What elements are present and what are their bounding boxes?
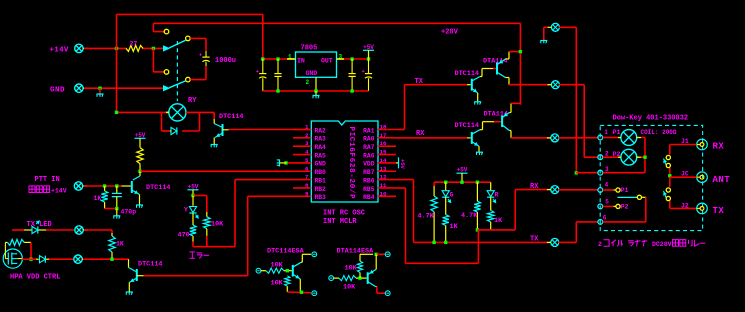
- wire line1 top: [117, 13, 263, 15]
- ground pin5 rotated: [277, 159, 286, 166]
- capacitor C out ceramic: [349, 59, 356, 91]
- pin 1 relay: [598, 135, 603, 140]
- ground relay driver emitter: [211, 145, 218, 148]
- resistor R 10K lower dtc-esa: [285, 276, 290, 292]
- label Y: [184, 207, 188, 214]
- wire +14V row: [84, 47, 163, 49]
- label DTA114 tx: [483, 58, 507, 66]
- ground bottom transistor: [126, 292, 133, 295]
- svg-text:IN: IN: [297, 58, 305, 65]
- transistor Q PTT: [132, 171, 140, 204]
- resistor R 10K base dta-esa: [339, 276, 367, 281]
- diode D flyback: [170, 127, 177, 134]
- connector RX: [547, 186, 559, 194]
- wire riser to RB3: [248, 196, 293, 275]
- wire dtc esa emitter row: [287, 291, 311, 294]
- chip part number: [347, 127, 355, 200]
- svg-text:6: 6: [603, 215, 607, 222]
- svg-text:RX: RX: [530, 183, 539, 191]
- svg-text:1: 1: [604, 129, 608, 136]
- wire error bottom: [193, 246, 235, 248]
- label 27: [130, 41, 138, 48]
- label P1 coil: [613, 129, 621, 136]
- wire RB6 riser: [396, 180, 414, 243]
- capacitor C in electro: [256, 59, 267, 91]
- svg-text:RA1: RA1: [363, 127, 375, 134]
- label J2: [681, 203, 689, 210]
- wire to J2: [670, 201, 697, 208]
- svg-text:INT MCLR: INT MCLR: [323, 218, 357, 226]
- svg-text:RB2: RB2: [315, 186, 327, 193]
- resistor R 4.7K right: [474, 182, 480, 230]
- label 1K R: [494, 217, 503, 225]
- label +28V: [441, 29, 459, 37]
- label DTC114 tx: [455, 70, 479, 78]
- svg-text:10K: 10K: [271, 279, 284, 287]
- wire RX riser: [515, 190, 551, 230]
- chip right pin names: [363, 127, 375, 201]
- connector TX: [547, 238, 559, 246]
- wire row2 corner: [111, 230, 113, 233]
- node bus2: [314, 89, 317, 92]
- aux blade: [618, 195, 642, 199]
- svg-text:INT RC OSC: INT RC OSC: [323, 210, 365, 218]
- svg-text:4.7K: 4.7K: [461, 212, 478, 220]
- connector out bottom DTC ESA: [312, 291, 317, 296]
- transistor Q DTA114 tx: [497, 52, 509, 85]
- label 7805: [301, 45, 318, 53]
- node OUT1: [350, 57, 353, 60]
- svg-text:DTC114: DTC114: [146, 184, 170, 192]
- wire 7805 gnd stub: [315, 77, 317, 91]
- transistor Q DTC114 tx: [467, 77, 480, 102]
- node +14V/line1 junction: [115, 47, 118, 50]
- node dta esa top: [375, 253, 378, 256]
- svg-text:1K: 1K: [116, 241, 124, 248]
- ground GND row: [97, 94, 104, 97]
- rf contact b2: [666, 196, 670, 200]
- wire row3 right: [83, 258, 129, 260]
- label DTC114 relay driver: [219, 113, 243, 121]
- label RY: [188, 97, 197, 105]
- svg-text:RX: RX: [713, 142, 725, 152]
- wire DTC tx collector: [480, 69, 497, 77]
- svg-text:P2: P2: [621, 203, 629, 210]
- wire line1 drop to 7805 IN: [262, 14, 264, 59]
- svg-text:R: R: [495, 191, 499, 198]
- wire HPA gate drop: [30, 242, 32, 259]
- svg-text:8: 8: [305, 182, 309, 189]
- svg-text:15: 15: [380, 149, 387, 156]
- ground top right: [540, 41, 547, 44]
- node error top: [191, 194, 194, 197]
- label soushinji+14V: [29, 186, 67, 195]
- resistor R HPA gate: [5, 239, 31, 252]
- ground 7805: [313, 96, 320, 99]
- resistor R 10K base dtc-esa: [266, 268, 292, 273]
- ground PTT: [113, 216, 120, 219]
- contact P1 aux: [603, 188, 620, 192]
- svg-text:RB3: RB3: [315, 194, 327, 201]
- led D error Y: [189, 196, 198, 226]
- connector out top DTA ESA: [385, 252, 390, 257]
- wire GND row: [84, 87, 163, 89]
- switch contact pole2 a: [164, 70, 169, 75]
- svg-text:RB4: RB4: [363, 194, 375, 201]
- chip right pin numbers: [380, 124, 387, 198]
- svg-text:9: 9: [305, 190, 309, 197]
- svg-text:4: 4: [605, 182, 609, 189]
- svg-text:10: 10: [380, 190, 387, 197]
- svg-text:1K: 1K: [450, 223, 459, 231]
- label RX mid: [416, 130, 425, 138]
- wire PTT row: [84, 185, 131, 187]
- svg-text:RB1: RB1: [315, 177, 327, 184]
- node dtc esa bottom: [300, 291, 303, 294]
- wire RX from RA0: [396, 137, 467, 139]
- label 1K PTT: [94, 195, 102, 202]
- svg-text:+28V: +28V: [441, 29, 459, 37]
- node row3 1K: [110, 258, 113, 261]
- connector in DTA ESA: [329, 276, 339, 281]
- transistor Q bottom: [129, 259, 144, 291]
- svg-text:+5V: +5V: [399, 159, 406, 170]
- label TX LED: [27, 221, 52, 229]
- label 1K row2: [116, 241, 124, 248]
- wire gnd conn right: [559, 27, 577, 172]
- svg-text:DTC114: DTC114: [455, 70, 479, 78]
- wire coil left: [117, 111, 169, 113]
- pin 4 relay: [598, 188, 603, 193]
- svg-text:18: 18: [380, 124, 387, 131]
- capacitor C 470p: [112, 186, 122, 209]
- transistor Q DTA114 rx: [502, 103, 511, 138]
- pin number labels relay: [603, 129, 609, 222]
- chip left pin numbers: [305, 124, 309, 198]
- resistor R 1K PTT: [101, 186, 107, 209]
- node IN1: [261, 57, 264, 60]
- power +5V rail: [457, 167, 468, 183]
- svg-text:TX: TX: [713, 206, 725, 216]
- label 10K d: [345, 265, 358, 273]
- capacitor C in ceramic: [274, 59, 281, 91]
- label DTA114 rx: [484, 110, 508, 118]
- node lamps: [643, 156, 646, 159]
- wire error branch: [193, 196, 207, 213]
- label 10K c: [343, 284, 356, 292]
- label G: [450, 191, 454, 198]
- svg-text:ANT: ANT: [713, 175, 731, 185]
- node PTT gnd: [115, 207, 118, 210]
- transistor Q DTC114 rx: [467, 130, 480, 152]
- label ANT big: [713, 175, 731, 185]
- svg-text:6: 6: [305, 165, 309, 172]
- connector +14V port: [75, 44, 88, 52]
- svg-text:GND: GND: [50, 86, 65, 94]
- svg-text:OUT: OUT: [321, 58, 333, 65]
- wire PTT bottom: [105, 208, 117, 210]
- node bus3: [350, 89, 353, 92]
- diode D flyback loop: [162, 112, 200, 131]
- label DTA114ESA: [337, 248, 375, 256]
- wire DTA rx collector out: [511, 137, 551, 139]
- label PTT IN: [35, 176, 60, 184]
- wire lamps common: [637, 138, 645, 173]
- connector coil2 feed: [547, 81, 559, 89]
- label P1 aux: [621, 187, 629, 194]
- led D TX LED: [32, 221, 74, 234]
- node HPA: [29, 258, 32, 261]
- wire 7805 bottom bus: [263, 90, 369, 92]
- pin 6 relay: [598, 220, 603, 225]
- wire DTC rx collector: [480, 122, 502, 130]
- svg-text:4: 4: [305, 149, 309, 156]
- label P2 aux: [621, 203, 629, 210]
- svg-text:RA6: RA6: [363, 152, 375, 159]
- capacitor C out electro: [362, 59, 373, 91]
- chip left pin stubs: [293, 130, 311, 197]
- wire dta esa out top: [376, 253, 385, 255]
- svg-text:5: 5: [605, 198, 609, 205]
- node dtc esa base: [286, 269, 289, 272]
- node pin5: [284, 161, 287, 164]
- wire TX to pin6: [558, 222, 598, 243]
- label GND: [50, 86, 65, 94]
- rf contact a2: [666, 163, 670, 167]
- svg-text:TX: TX: [415, 78, 424, 86]
- svg-text:RA5: RA5: [315, 152, 327, 159]
- svg-text:J2: J2: [681, 203, 689, 210]
- transistor Q relay driver: [214, 119, 228, 144]
- wire bottom base long: [144, 275, 248, 277]
- svg-text:27: 27: [130, 41, 138, 48]
- wire pole2b to cap bottom: [190, 66, 206, 80]
- svg-text:RY: RY: [188, 97, 197, 105]
- svg-text:RA3: RA3: [315, 136, 327, 143]
- svg-text:2: 2: [306, 79, 310, 86]
- wire JC down: [669, 177, 671, 187]
- node coil left: [115, 111, 118, 114]
- svg-text:GND: GND: [306, 70, 318, 77]
- switch contact pole2 b: [186, 77, 191, 82]
- svg-text:G: G: [450, 191, 454, 198]
- resistor R 10K error: [204, 212, 210, 247]
- pin 1 7805: [288, 54, 292, 61]
- svg-text:Dow-Key 401-330832: Dow-Key 401-330832: [613, 115, 689, 123]
- svg-text:2: 2: [598, 241, 602, 248]
- label RX right: [530, 183, 539, 191]
- node bus1: [276, 89, 279, 92]
- svg-text:VDD: VDD: [363, 161, 375, 168]
- label relay description: [598, 240, 705, 249]
- label DTC114 PTT: [146, 184, 170, 192]
- wire JC left: [670, 176, 697, 178]
- label TX big: [713, 206, 725, 216]
- svg-text:DTC114ESA: DTC114ESA: [267, 248, 305, 256]
- node rail2: [460, 181, 463, 184]
- wire RB5 loop: [396, 188, 478, 263]
- wire pole1b to cap: [190, 38, 206, 51]
- node 27-switch junction: [152, 47, 155, 50]
- wire trunk 28V: [519, 23, 521, 104]
- svg-text:5: 5: [305, 157, 309, 164]
- svg-text:1K: 1K: [494, 217, 503, 225]
- wire vertical x116 line1 to relay: [116, 14, 118, 112]
- connector gnd top: [547, 23, 559, 31]
- svg-text:DC28V: DC28V: [652, 241, 672, 248]
- pin 5 relay: [598, 204, 603, 209]
- resistor R pullup PTT: [137, 148, 143, 172]
- wire to relay pin3: [576, 172, 598, 174]
- wire gnd stub2: [315, 91, 317, 96]
- wire aux common to pin6: [603, 197, 646, 222]
- wire error riser to RB1: [235, 180, 293, 247]
- pin 2 7805: [306, 79, 310, 86]
- node PTT c1: [115, 184, 118, 187]
- svg-text:+14V: +14V: [51, 188, 67, 195]
- label error: [190, 252, 210, 258]
- resistor R 10K upper dta-esa: [357, 254, 373, 278]
- power +5V error: [188, 183, 199, 195]
- label 1000u: [215, 57, 236, 65]
- svg-text:13: 13: [380, 165, 387, 172]
- svg-text:RA0: RA0: [363, 136, 375, 143]
- connector HPA port: [74, 255, 87, 263]
- node bus 4.7K: [432, 241, 435, 244]
- svg-text:RA7: RA7: [363, 144, 375, 151]
- svg-text:TX: TX: [530, 236, 539, 244]
- node OUT2: [367, 57, 370, 60]
- node PTT r1: [103, 184, 106, 187]
- label J1: [681, 138, 689, 145]
- power +5V pin14: [396, 157, 406, 169]
- label 10K error: [211, 221, 224, 229]
- lamp coil P2: [603, 149, 640, 165]
- label 470: [178, 232, 190, 240]
- svg-text:10K: 10K: [345, 265, 358, 273]
- chip left pin names: [315, 127, 327, 201]
- svg-text:GND: GND: [315, 161, 327, 168]
- wire line2 +28V feed: [153, 22, 520, 24]
- label 1K G: [450, 223, 459, 231]
- pin 2 relay: [598, 155, 603, 160]
- resistor R 27 zigzag: [126, 45, 143, 51]
- wire TX from RA1: [396, 85, 467, 130]
- svg-text:1000u: 1000u: [215, 57, 236, 65]
- svg-text:10K: 10K: [343, 284, 356, 292]
- wire row2 right: [84, 229, 112, 231]
- wire rail: [434, 181, 491, 183]
- label 470p: [121, 209, 137, 216]
- connector J2: [697, 203, 708, 214]
- rf contact a1: [666, 155, 670, 159]
- svg-text:470: 470: [178, 232, 190, 240]
- wire GND tap drop: [99, 88, 101, 94]
- wire coil2 right: [559, 85, 598, 158]
- svg-text:1K: 1K: [94, 195, 102, 202]
- node dta esa base: [358, 276, 361, 279]
- label 4.7K left: [418, 213, 435, 221]
- label +14V: [50, 47, 69, 55]
- chip U1 PIC16F628 body: [311, 121, 378, 202]
- pin 3 7805: [339, 54, 343, 61]
- svg-text:DTA114: DTA114: [483, 58, 507, 66]
- connector coil1 feed: [547, 134, 559, 142]
- svg-text:10K: 10K: [271, 262, 284, 270]
- switch pole2 arrow: [163, 81, 186, 92]
- svg-text:11: 11: [380, 182, 387, 189]
- svg-text:RB5: RB5: [363, 186, 375, 193]
- node rail1: [444, 181, 447, 184]
- diode D HPA: [36, 256, 73, 263]
- svg-text:7: 7: [305, 174, 309, 181]
- transistor Q DTA114ESA: [368, 254, 377, 286]
- power +5V PTT pullup: [135, 132, 146, 148]
- wire to JC: [669, 168, 671, 177]
- connector PTT IN port: [74, 182, 87, 190]
- wire driver base to PIC RA2: [229, 129, 312, 131]
- wire DTA rx emitter to 28V: [511, 103, 520, 104]
- rf contact b1: [666, 188, 670, 192]
- wire HPA row: [17, 258, 36, 261]
- node 28V junction: [519, 50, 522, 53]
- label JC: [681, 171, 689, 178]
- wire dta esa collector out: [377, 287, 385, 294]
- resistor R 1K row2: [109, 233, 115, 259]
- wire gnd conn left: [544, 27, 548, 40]
- node IN2: [276, 57, 279, 60]
- label INT MCLR: [323, 218, 357, 226]
- label P2 coil: [613, 151, 621, 158]
- svg-text:Y: Y: [184, 207, 188, 214]
- node GND ground tap: [98, 87, 101, 90]
- resistor R 470: [190, 225, 196, 247]
- wire common to pin3: [603, 172, 645, 174]
- wire 7805 IN: [263, 58, 296, 60]
- wire pole2 feed from +14V: [153, 48, 164, 72]
- connector J1: [697, 139, 708, 150]
- svg-text:3: 3: [305, 140, 309, 147]
- svg-text:DTC114: DTC114: [455, 122, 479, 130]
- label RX big: [713, 142, 725, 152]
- svg-text:COIL: 200Ω: COIL: 200Ω: [641, 129, 677, 136]
- capacitor C 1000u: [199, 51, 210, 66]
- wire PTT out to RB0: [140, 170, 293, 172]
- svg-text:1: 1: [305, 124, 309, 131]
- wire pin5 gnd: [286, 162, 293, 164]
- svg-text:4.7K: 4.7K: [418, 213, 435, 221]
- contact P2 aux: [603, 204, 620, 208]
- svg-text:17: 17: [380, 132, 387, 139]
- rf blade2: [663, 191, 667, 198]
- wire coil right: [186, 112, 214, 119]
- svg-text:P1: P1: [621, 187, 629, 194]
- label R: [495, 191, 499, 198]
- relay coil RY: [166, 104, 188, 121]
- label INT RC OSC: [323, 210, 365, 218]
- led D G: [442, 182, 451, 214]
- svg-text:+14V: +14V: [50, 47, 69, 55]
- regulator U 7805 box: [296, 52, 337, 77]
- label 4.7K right: [461, 212, 478, 220]
- svg-text:RB6: RB6: [363, 177, 375, 184]
- wire PTT gnd stub: [116, 209, 118, 216]
- node pin3 wire: [575, 171, 578, 174]
- ground DTC tx: [474, 102, 481, 105]
- svg-text:7805: 7805: [301, 45, 318, 53]
- wire line2 left drop: [153, 23, 164, 31]
- wire RX to pin4: [558, 189, 598, 191]
